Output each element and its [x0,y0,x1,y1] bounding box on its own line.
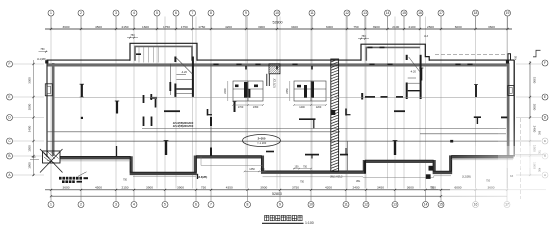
svg-text:1: 1 [50,203,52,207]
dimension 750 at protrusion 2 [358,34,369,39]
svg-text:2200: 2200 [224,88,227,94]
pier: pier at x504 on D axis [501,116,507,118]
wall: protrusion 2 inner [366,47,420,60]
wall: protrusion 1 inner [135,46,192,60]
dimension 750 at protrusion 1 [127,33,138,38]
node axis 17 (bottom circle, faint) [504,190,510,208]
svg-text:3300: 3300 [28,77,32,84]
svg-text:3450: 3450 [377,185,384,189]
svg-text:E: E [544,95,546,99]
svg-text:2150: 2150 [122,25,129,29]
svg-text:F: F [9,62,11,66]
svg-text:JL3: JL3 [424,35,429,38]
pier: corner pier at x151 on E axis [150,94,157,100]
wall: hatched shear wall strip at axis 12 [331,59,339,172]
node axis 2 (bottom circle) [78,190,84,208]
node: junction blob at x82 D axis [81,117,83,119]
svg-text:1200: 1200 [316,106,322,109]
wire: faint horizontal axis grid lines [13,64,541,175]
svg-text:1750: 1750 [163,25,170,29]
pier: T wall at x340-348 lower [340,148,348,155]
node axis 3 (top circle) [113,10,119,29]
node axis 17 (top circle) [438,10,444,29]
svg-text:1750: 1750 [181,25,188,29]
dimension: elevator B bottom dims [293,104,327,109]
svg-text:3600: 3600 [407,185,414,189]
svg-text:2350: 2350 [286,88,289,94]
node axis 12 (top circle) [344,10,350,29]
svg-text:750: 750 [303,165,308,168]
wire: stair flight lines protrusion 2 [408,57,420,83]
wire: faint extension of bottom dim line [507,189,546,191]
wall: hatched square at x269-280 [269,64,280,74]
pier: I-shaped wall pier at axis 2 [80,84,84,97]
component: stair shaft walls inside protrusion 2 [407,55,421,99]
node: right faint axis circles and dims [516,118,548,199]
pier: column between right wall faces [508,86,514,96]
svg-text:B: B [8,154,10,158]
pier: small stubs on top wall [246,66,312,70]
svg-text:11: 11 [344,203,348,207]
node axis 5 (bottom circle) [162,190,168,208]
svg-text:4: 4 [133,11,135,15]
component: stair shaft walls inside protrusion 1 [175,57,193,97]
svg-text:1:100: 1:100 [305,221,314,225]
svg-text:3600: 3600 [488,25,495,29]
node axis 11 (top circle) [309,10,315,29]
node axis 7 (bottom circle) [208,190,214,208]
pier: corner pier at x362 on E axis [361,93,363,100]
pier: wall pier at axis 3 [115,101,119,156]
dimension: elevator B left ticks [286,81,290,101]
svg-text:6000: 6000 [455,25,462,29]
svg-text:750: 750 [353,25,358,29]
svg-text:13: 13 [393,203,397,207]
pier: step tick at x197.5 below band [197,174,199,179]
svg-text:16: 16 [418,11,422,15]
svg-text:1750: 1750 [198,25,205,29]
wall: interior vertical x347.5 lower [347,141,349,171]
node axis 16 (top circle) [417,10,423,29]
svg-text:2: 2 [80,203,82,207]
svg-text:1400: 1400 [299,106,305,109]
svg-text:3600: 3600 [63,185,70,189]
pier: small bar at x155.5 below E [155,99,157,108]
svg-text:150: 150 [295,165,300,168]
svg-text:2=300: 2=300 [258,136,266,140]
pier: L mark at x207 [208,109,213,116]
node axis 7 (top circle) [190,10,196,29]
svg-text:10: 10 [309,203,313,207]
node axis 9 (bottom circle) [277,190,283,208]
pier: wall pier at axis 5 lower [164,141,169,156]
component: stair treads protrusion 1 [139,47,158,63]
svg-text:750: 750 [130,33,135,37]
node axis D (right circle) [542,115,548,121]
dimension: elevator A left ticks [224,81,228,101]
node axis 15 (bottom circle) [438,190,444,208]
pier: stub below band at axis 13 bottom [364,161,366,174]
svg-text:2: 2 [80,11,82,15]
pier: dark bar x394-405 [394,110,405,112]
wire: bottom bay dimension line [45,189,508,191]
wall: stair protrusion 2 (axes 13-16) outer [361,44,429,61]
node axis 19 (top circle) [505,10,511,29]
pier: small pier on C axis at x451 [450,140,453,143]
node axis 6 (bottom circle) [193,190,199,208]
node axis 3 (bottom circle) [113,190,119,208]
svg-text:4500: 4500 [95,185,102,189]
text: faint marks bottom-right zone [462,175,514,183]
node axis B (left circle) [7,153,13,159]
svg-text:JCL1(2): JCL1(2) [273,78,277,87]
pier: bar below cluster A at x234.5 [233,102,237,113]
svg-text:6: 6 [195,203,197,207]
node axis F (right circle) [542,60,548,66]
text: drawing title (CJK simulated blocks) [265,215,303,220]
pier: dark square at x428 bottom [429,166,434,171]
node axis 13 (bottom circle) [392,190,398,208]
node: corner dots on top wall [45,60,509,63]
pier: wall bar at x143.5 upper [143,95,145,103]
wire: faint line right of wall [514,154,546,156]
node axis A (left circle) [7,172,13,178]
svg-text:750: 750 [361,34,366,38]
svg-text:15: 15 [439,203,443,207]
svg-text:1: 1 [50,11,52,15]
svg-text:2400: 2400 [28,125,32,132]
pier: elevator B dark core [304,85,307,98]
top bay dimension texts [63,25,496,29]
svg-text:4350: 4350 [226,185,233,189]
svg-text:1500: 1500 [28,145,32,152]
wire: bottom overall dimension line [50,195,507,197]
svg-text:3900: 3900 [373,25,380,29]
left dimension texts (rotated) [28,77,32,169]
dimension: 750 tick at top-left corner [39,48,48,52]
svg-text:F: F [544,61,546,65]
svg-text:2000: 2000 [28,103,32,110]
svg-text:6000: 6000 [326,25,333,29]
svg-text:2400: 2400 [353,185,360,189]
wire: faint vertical axis grid lines [51,17,508,189]
svg-text:1350: 1350 [253,106,259,109]
svg-text:10: 10 [275,11,279,15]
svg-text:JL6(2B): JL6(2B) [198,176,207,179]
node axis 12 (bottom circle) [363,190,369,208]
wire: left dimension line [32,60,34,176]
node axis 15 (top circle) [401,10,407,29]
pier: L wall at x300-315 on D axis [299,119,316,128]
svg-text:18: 18 [474,11,478,15]
node axis E (right circle) [542,94,548,100]
pier: dark bars on E axis wall [365,96,375,98]
dimension: elevator A bottom dims [232,104,264,109]
wall: stair protrusion 1 (axes 4-7) outer [130,43,197,61]
svg-text:JBL: JBL [356,180,361,183]
node axis 9 (top circle) [243,10,249,29]
svg-text:4200: 4200 [325,185,332,189]
pier: dark bar x164-180 on D axis [164,110,180,112]
svg-text:3400: 3400 [291,25,298,29]
svg-text:19: 19 [506,11,510,15]
node axis 10 (bottom circle) [308,190,314,208]
svg-text:8: 8 [247,203,249,207]
pier: vertical pier at axis 18 x476 [474,85,478,98]
node axis 14 (bottom circle) [423,190,429,208]
svg-text:52800: 52800 [273,20,283,24]
dimension: 750 mini dim bottom right x430 [426,186,438,189]
svg-text:5: 5 [164,203,166,207]
wire: E axis interior line [54,96,507,98]
svg-text:3: 3 [115,11,117,15]
wall: interior vertical at axis 8 [210,64,212,157]
svg-text:12: 12 [345,11,349,15]
svg-text:450: 450 [515,55,518,60]
wire: stair flight lines protrusion 1 [176,58,192,94]
node axis 10 (top circle) [274,10,280,29]
node axis E (left circle) [7,94,13,100]
svg-text:-4.20: -4.20 [181,70,187,74]
svg-text:1900: 1900 [28,162,32,169]
wall: right outer face [513,60,515,156]
node axis 1 (top circle) [48,10,54,29]
pier: L mark at x346 [346,109,351,116]
wire: top dimension line [45,28,512,30]
wire: interior horizontal line y134 (right) [420,133,506,135]
svg-text:17: 17 [439,11,443,15]
svg-text:750: 750 [201,185,206,189]
wall: interior vertical at x170 [169,64,171,96]
svg-text:2100: 2100 [392,25,399,29]
svg-text:JL1(2B): JL1(2B) [37,58,46,61]
wall: left porch hatched box with X brace [40,149,63,173]
svg-text:8: 8 [210,11,212,15]
component: break hook symbol x533 [533,50,541,57]
pier: dark blob on strip at y110 [331,110,336,115]
svg-text:E: E [8,95,10,99]
pier: small bar at x266-274 y151.5 [266,151,274,153]
svg-text:3900: 3900 [260,185,267,189]
dimension: mini dims x288-312 (150 750) [293,165,312,169]
dimension: A axis tick at left edge [30,158,39,160]
node axis 1 (bottom circle) [48,190,54,208]
svg-text:2100: 2100 [409,25,416,29]
svg-text:JZL4(5B)300x550: JZL4(5B)300x550 [173,125,194,128]
node axis 13 (top circle) [362,10,368,29]
svg-text:2150: 2150 [122,185,129,189]
pier: wall pier at axis 14 lower [393,141,398,156]
svg-text:3750: 3750 [292,185,299,189]
svg-text:14: 14 [386,11,390,15]
svg-text:750: 750 [300,181,305,184]
svg-text:14: 14 [424,203,428,207]
node axis 6 (top circle) [173,10,179,29]
pier: column between left wall faces [45,84,52,96]
node axis 8 (bottom circle) [245,190,251,208]
pier: T wall at x305-319 lower [305,155,319,159]
wire: right dimension line (upper, dark) [529,61,531,119]
svg-text:3: 3 [115,203,117,207]
svg-text:12: 12 [364,203,368,207]
svg-text:15: 15 [402,11,406,15]
pier: dark dashes on protrusion 2 inner line [368,46,385,48]
svg-text:750: 750 [260,168,265,171]
wall: double vertical below hatched square [267,74,270,86]
wire: interior beam line on axis C [47,140,507,142]
wall: right inner gray band [507,63,510,156]
wire: interior horizontal line y128 [142,127,506,129]
pier: elevator A dark core [244,82,248,98]
pier: dark squares bottom-left interior [144,117,152,127]
svg-text:4: 4 [133,203,135,207]
wall: top inner gray band [48,63,507,66]
svg-text:7: 7 [192,11,194,15]
svg-text:5: 5 [156,11,158,15]
node axis D (left circle) [7,115,13,121]
svg-text:750: 750 [431,185,436,189]
node axis 8 (top circle) [208,10,214,29]
svg-text:2000: 2000 [533,104,537,111]
svg-text:9: 9 [245,11,247,15]
svg-text:3900: 3900 [258,25,265,29]
svg-text:3900: 3900 [177,185,184,189]
svg-text:2500: 2500 [427,25,434,29]
svg-text:7: 7 [210,203,212,207]
svg-text:9: 9 [279,203,281,207]
svg-text:3300: 3300 [533,77,537,84]
svg-text:3900: 3900 [146,185,153,189]
svg-text:JBL1 KZL2: JBL1 KZL2 [330,176,343,179]
wall: top outer face [47,60,514,157]
wire: dashed line top right [435,53,506,55]
svg-text:3600: 3600 [63,25,70,29]
svg-text:750: 750 [40,48,45,51]
node axis 5 (top circle) [154,10,160,29]
node axis F (left circle) [7,61,13,67]
bottom bay dimension texts [63,185,495,189]
node axis 16 (bottom circle, faint) [473,190,479,208]
wire: bottom inner echo lines [60,157,514,178]
pier: dark dashes on top band [213,63,472,65]
node axis 11 (bottom circle) [343,190,349,208]
pier: T pier at x477 on D axis [474,117,481,124]
pier: small bar on E axis right of stair2 [396,96,403,98]
wire: leader from legend text [78,172,87,177]
svg-text:4500: 4500 [95,25,102,29]
wall: notch at top-right corner [508,54,511,60]
pier: dark square at x426 lower [426,174,431,179]
node axis 18 (top circle) [473,10,479,29]
svg-text:-4.20: -4.20 [410,70,416,74]
wire: interior horizontal line y132 [47,131,340,133]
wire: title underline [262,222,304,224]
component: elevator pit cluster B (axes 10-11) [294,81,326,101]
svg-text:1350: 1350 [249,168,255,171]
pier: wall at x421 (D level) [419,68,423,81]
svg-text:52800: 52800 [272,192,282,196]
node axis 2 (top circle) [78,10,84,29]
svg-text:1700: 1700 [238,106,244,109]
component: elevator pit cluster A (axes 9-10) [233,81,263,101]
svg-text:▽-1.200: ▽-1.200 [257,141,267,145]
svg-text:11: 11 [310,11,314,15]
svg-text:6: 6 [175,11,177,15]
wall: left inner gray band [52,63,55,156]
wall: bottom stepped outline (dark band) [60,157,514,174]
node axis C (left circle) [7,138,13,144]
text: faint rotated marks right column 2 [538,131,541,173]
node axis 4 (bottom circle) [131,190,137,208]
wall: bottom band dark top edge [60,156,514,173]
component: oval label (pit depth) [243,135,281,147]
dimension: mini dims in bottom recess (1350 750) [244,168,267,172]
svg-text:1600: 1600 [142,25,149,29]
text: legend note bottom-left (2 lines) [59,177,88,183]
svg-text:750: 750 [123,178,128,181]
svg-text:13: 13 [363,11,367,15]
node axis 4 (top circle) [131,10,137,29]
svg-text:4200: 4200 [225,25,232,29]
node axis 14 (top circle) [385,10,391,29]
